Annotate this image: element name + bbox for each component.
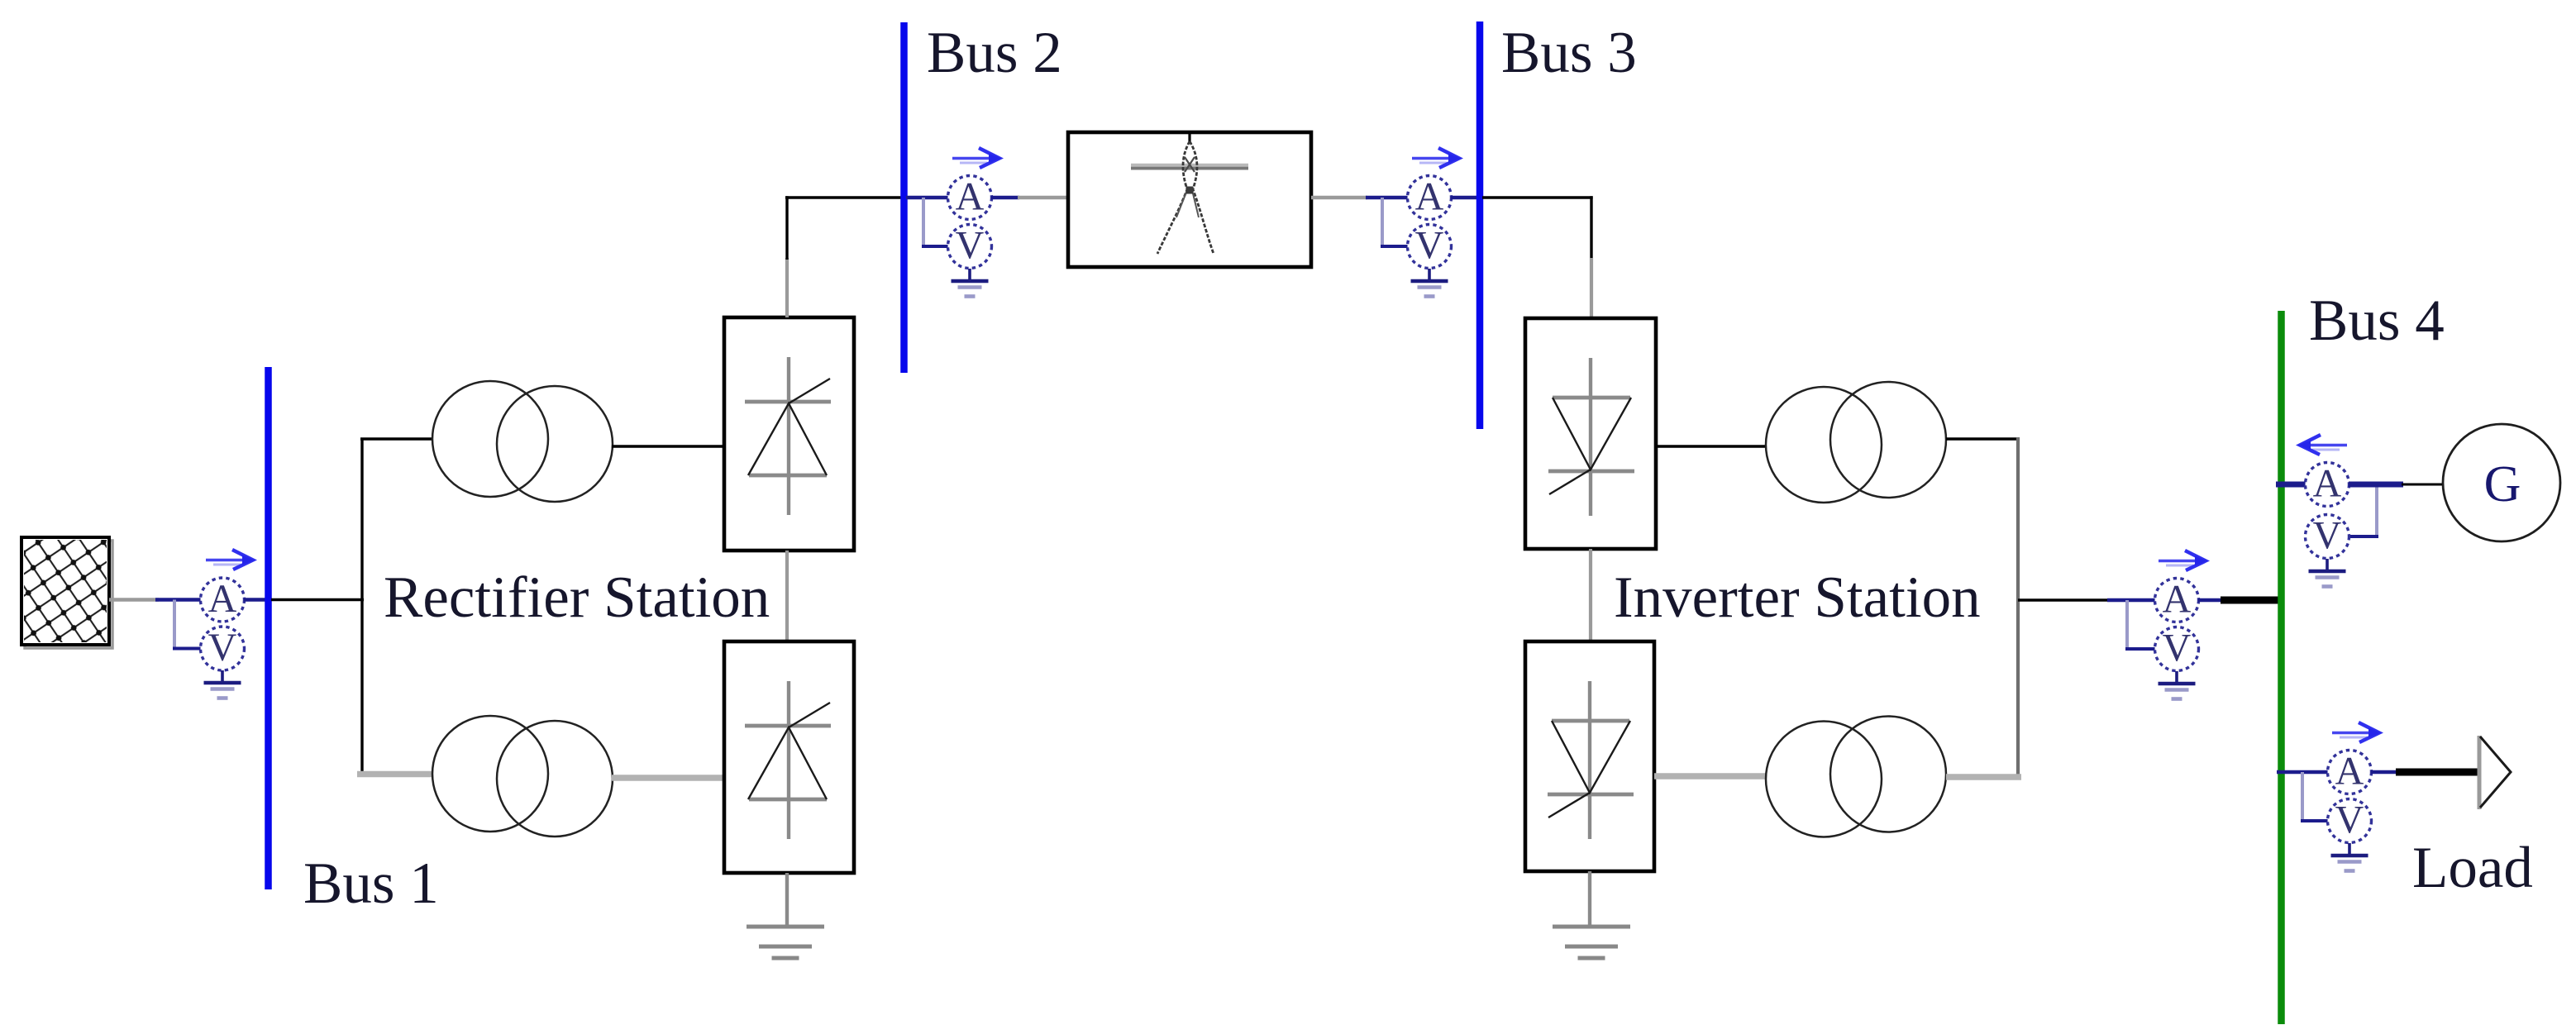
- wire valve 4 to ground: [1588, 871, 1591, 927]
- current arrow M3: [1412, 148, 1461, 168]
- series wire valve 3 to valve 4: [1589, 549, 1592, 641]
- wire ammeter M6 to load: [2371, 770, 2481, 774]
- ground under valve group 2: [747, 927, 824, 958]
- converter valve group 1 box: [724, 317, 854, 551]
- transformer T3: [1766, 382, 1946, 503]
- wire valve 4 to transformer T4: [1654, 773, 1766, 779]
- voltmeter tap wire M1: [173, 600, 201, 649]
- thyristor valve 1: [745, 357, 831, 515]
- voltmeter tap wire M2: [922, 198, 948, 246]
- ground under valve group 4: [1553, 927, 1630, 958]
- voltmeter tap wire M6: [2301, 772, 2328, 821]
- voltmeter M4: [2155, 627, 2199, 671]
- voltmeter M2: [948, 224, 992, 269]
- converter valve group 3 box: [1525, 318, 1656, 549]
- series wire valve 1 to valve 2: [785, 551, 789, 641]
- current arrow M4: [2159, 551, 2207, 570]
- wire source to ammeter: [109, 598, 204, 601]
- voltmeter tap wire M4: [2125, 600, 2155, 649]
- wire bus 4 to ammeter M5: [2276, 482, 2306, 488]
- ammeter M6: [2328, 750, 2372, 794]
- svg-text:Bus 1: Bus 1: [303, 851, 439, 916]
- voltmeter tap wire M5: [2350, 484, 2378, 536]
- ammeter M4: [2155, 578, 2199, 622]
- wire ammeter M3 to bus 3: [1451, 196, 1477, 199]
- bus 3: [1476, 21, 1484, 429]
- wire T4 to collector: [1946, 774, 2021, 780]
- wire T3 to collector: [1946, 437, 2020, 440]
- wire valve 3 to transformer T3: [1656, 445, 1766, 447]
- wire ammeter M4 to bus 4: [2198, 598, 2279, 602]
- wire branch to transformer T2: [357, 771, 433, 778]
- external grid source: [21, 537, 112, 648]
- wire bus 4 to ammeter M6: [2277, 770, 2329, 774]
- thyristor valve 4: [1548, 681, 1634, 839]
- current arrow M6: [2332, 722, 2381, 742]
- wire bus 1 to branch: [271, 598, 364, 601]
- wire ammeter M1 to bus 1: [244, 598, 265, 601]
- wire collector to ammeter M4: [2018, 598, 2155, 602]
- transmission line block: [1068, 132, 1311, 267]
- svg-text:Inverter Station: Inverter Station: [1614, 565, 1981, 630]
- ground under voltmeter M5: [2309, 559, 2346, 587]
- voltmeter M5: [2306, 514, 2349, 559]
- voltmeter M6: [2328, 799, 2372, 843]
- voltmeter M1: [201, 626, 245, 670]
- transformer T2: [432, 716, 613, 837]
- ground under voltmeter M1: [204, 670, 241, 698]
- svg-text:Bus 4: Bus 4: [2309, 288, 2445, 353]
- wire line block to ammeter M3: [1311, 196, 1409, 199]
- transmission tower symbol: [1131, 132, 1248, 254]
- wire ammeter M5 to generator: [2349, 482, 2445, 488]
- bus 2: [900, 22, 908, 373]
- collector wire vertical: [2016, 437, 2020, 779]
- converter valve group 4 box: [1525, 641, 1654, 871]
- wire ammeter M2 to line block: [991, 196, 1070, 199]
- ground under voltmeter M2: [952, 269, 989, 297]
- thyristor valve 3: [1548, 358, 1634, 516]
- load symbol: [2479, 736, 2511, 809]
- svg-text:Rectifier Station: Rectifier Station: [384, 565, 770, 630]
- bus 4: [2278, 311, 2285, 1024]
- wire valve 2 to ground: [785, 873, 789, 927]
- wire branch to transformer T1: [360, 437, 433, 440]
- ground under voltmeter M4: [2159, 671, 2196, 699]
- voltmeter M3: [1408, 224, 1452, 269]
- svg-text:Bus 2: Bus 2: [927, 21, 1062, 85]
- svg-text:Bus 3: Bus 3: [1501, 21, 1637, 85]
- wire bus 2 to ammeter M2: [906, 196, 949, 199]
- thyristor valve 2: [745, 681, 831, 839]
- wire valve 1 to top corner: [785, 196, 902, 317]
- ammeter M1: [201, 577, 245, 622]
- svg-text:G: G: [2484, 456, 2521, 512]
- current arrow M2: [952, 148, 1001, 168]
- ground under voltmeter M3: [1411, 269, 1448, 297]
- generator G: [2443, 424, 2560, 541]
- ammeter M3: [1408, 175, 1452, 220]
- converter valve group 2 box: [724, 641, 854, 873]
- ground under voltmeter M6: [2331, 843, 2368, 871]
- current arrow M1: [206, 550, 255, 570]
- wire bus 3 to valve group 3: [1482, 196, 1593, 319]
- wire T2 to valve group 2: [612, 775, 726, 781]
- wire T1 to valve group 1: [612, 445, 726, 447]
- current arrow M5: [2298, 435, 2347, 455]
- ammeter M2: [948, 175, 992, 220]
- transformer T1: [432, 381, 613, 502]
- svg-text:Load: Load: [2412, 836, 2533, 900]
- voltmeter tap wire M3: [1381, 198, 1408, 246]
- transformer T4: [1766, 717, 1946, 837]
- bus 1: [265, 367, 272, 889]
- branch wire vertical: [360, 439, 363, 775]
- ammeter M5: [2306, 462, 2349, 507]
